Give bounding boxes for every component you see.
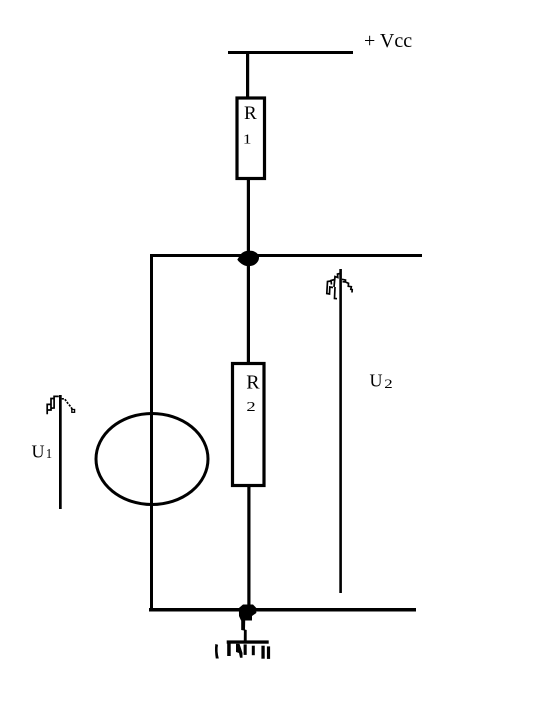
svg-text:+ Vcc: + Vcc <box>364 30 412 52</box>
wire node A to R2 <box>247 257 250 363</box>
svg-text:2: 2 <box>384 376 392 391</box>
arrow U1 head square tip <box>72 410 75 413</box>
wire mid rail <box>150 254 422 257</box>
node B junction dot <box>239 605 256 621</box>
ground hatch 1 <box>215 644 219 659</box>
arrow U2 line <box>339 269 342 593</box>
arrow U1 line <box>59 395 62 509</box>
wire from top rail to R1 <box>246 53 249 97</box>
wire left branch <box>150 254 153 610</box>
wire R1 to node A <box>247 178 250 256</box>
svg-text:1: 1 <box>243 132 252 147</box>
node A junction dot <box>237 251 259 267</box>
ground bar <box>227 640 269 643</box>
wire top rail +Vcc <box>228 51 353 54</box>
arrow U1 head right scribble <box>62 399 73 410</box>
arrow U2 head right scribble <box>342 279 352 292</box>
ground hatch 3 <box>236 644 243 658</box>
wire R2 to node B <box>247 485 250 605</box>
svg-text:U: U <box>32 442 45 462</box>
ground hatch 2 <box>227 644 231 657</box>
ground hatch 5 <box>252 646 255 656</box>
resistor R1 <box>237 98 265 179</box>
arrow U2 head left scribble <box>327 274 340 299</box>
ground hatch 4 <box>244 644 247 655</box>
svg-text:1: 1 <box>46 447 52 462</box>
ground hatch 6 <box>261 646 264 659</box>
svg-text:2: 2 <box>246 400 255 415</box>
arrow U1 head left scribble <box>47 396 59 414</box>
svg-text:R: R <box>246 372 260 394</box>
wire bottom rail <box>149 608 416 612</box>
wire node B to ground <box>241 620 247 641</box>
svg-text:U: U <box>370 371 383 391</box>
svg-text:R: R <box>244 103 257 124</box>
voltage source U1 circle <box>96 414 208 505</box>
ground hatch 7 <box>267 646 270 659</box>
resistor R2 <box>233 364 265 486</box>
